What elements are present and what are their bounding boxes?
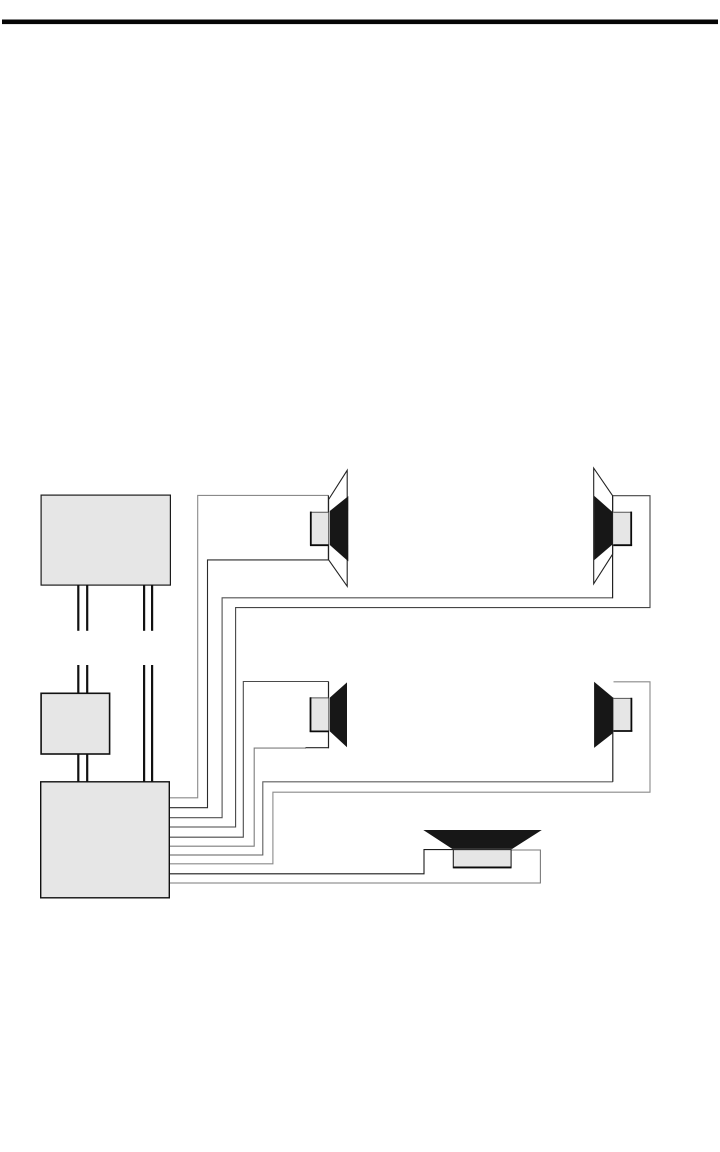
front-right speaker magnet — [613, 512, 632, 545]
front-right speaker frame line — [612, 496, 614, 599]
crossover lead pair (to amplifier) — [77, 754, 79, 782]
front-left speaker surround outline — [329, 470, 348, 586]
crossover box — [41, 693, 110, 754]
wire W1 (amp to front-left speaker +) — [169, 495, 328, 797]
front-left speaker magnet — [310, 512, 328, 545]
subwoofer cone — [423, 830, 542, 849]
rear-right speaker magnet — [614, 698, 632, 731]
front-left speaker cone — [330, 496, 349, 561]
wire W8 (amp to rear-right speaker +) — [169, 682, 650, 864]
wire W4 (amp to front-right speaker +) — [169, 496, 650, 827]
rear-left speaker frame line — [328, 682, 330, 749]
head unit lead pair B upper segment — [143, 585, 145, 631]
rear-left speaker magnet — [310, 698, 329, 732]
front-right speaker surround outline — [594, 468, 613, 584]
front-left speaker frame line — [327, 495, 329, 560]
rear-right speaker cone — [594, 682, 613, 748]
amplifier box — [41, 782, 170, 898]
wire W3 (amp to front-right speaker -) — [169, 598, 612, 818]
lead pair B lower segment (to amplifier) — [143, 665, 145, 782]
wire W2 (amp to front-left speaker -) — [169, 560, 328, 808]
wire W7 (amp to rear-right speaker -) — [169, 782, 613, 855]
wire W10 (amp to subwoofer -) — [169, 850, 540, 883]
wire W6 (amp to rear-left speaker -) — [169, 748, 306, 846]
lead pair A lower segment (to crossover) — [77, 665, 79, 693]
front-right speaker cone — [594, 496, 612, 561]
rear-right speaker frame line — [612, 697, 614, 781]
rear-left speaker cone — [330, 682, 347, 747]
wire W9 (amp to subwoofer +) — [169, 850, 453, 874]
wire W5 (amp to rear-left speaker +) — [169, 682, 328, 838]
top rule — [2, 20, 718, 25]
subwoofer magnet — [453, 850, 511, 868]
head unit box — [41, 495, 170, 585]
head unit lead pair A upper segment — [77, 585, 79, 631]
